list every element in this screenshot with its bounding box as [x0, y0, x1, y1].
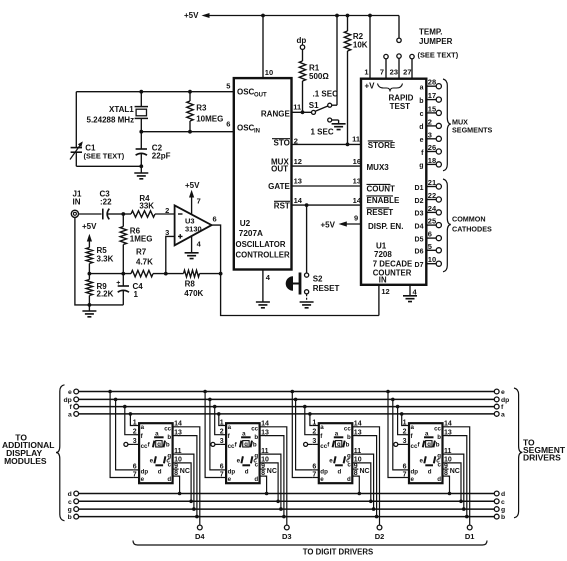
svg-text:g: g — [157, 442, 161, 448]
svg-text:a: a — [228, 424, 232, 431]
svg-text:b: b — [347, 434, 351, 441]
svg-text:+5V: +5V — [185, 181, 200, 190]
svg-text:e: e — [228, 476, 232, 483]
right terminal bus e — [494, 389, 505, 396]
svg-text:15: 15 — [428, 104, 436, 113]
U1 segment pin e (3) — [420, 130, 442, 144]
svg-text:9: 9 — [261, 463, 265, 470]
svg-text:8: 8 — [261, 470, 265, 477]
svg-text:9: 9 — [444, 463, 448, 470]
segment bus lines (e dp f a) — [79, 392, 494, 414]
svg-text:e: e — [420, 137, 424, 144]
svg-text:2: 2 — [220, 429, 224, 436]
U2 pin 4 ground — [256, 270, 271, 308]
svg-text:+5V: +5V — [184, 11, 199, 20]
svg-text:dp: dp — [320, 468, 328, 475]
svg-text:D3: D3 — [282, 532, 292, 541]
svg-text:e: e — [150, 457, 154, 464]
svg-text:b: b — [346, 442, 350, 449]
svg-text:OSC: OSC — [237, 124, 255, 133]
svg-text:3: 3 — [220, 438, 224, 445]
svg-text:5.24288 MHz: 5.24288 MHz — [87, 116, 135, 125]
svg-text:g: g — [501, 507, 505, 514]
module 4 pin 10 to bus c — [448, 463, 463, 503]
svg-text:JUMPER: JUMPER — [419, 37, 453, 46]
svg-text:3: 3 — [312, 438, 316, 445]
svg-text:7: 7 — [312, 471, 316, 478]
svg-text:g: g — [419, 163, 423, 170]
svg-text:.1 SEC: .1 SEC — [313, 90, 339, 99]
svg-text:8: 8 — [354, 470, 358, 477]
svg-text:STO: STO — [273, 139, 289, 148]
svg-text:a: a — [335, 430, 339, 437]
svg-text:CONTROLLER: CONTROLLER — [236, 251, 291, 260]
right terminal bus g — [494, 507, 505, 514]
svg-text:a: a — [411, 424, 415, 431]
svg-text:6: 6 — [403, 464, 407, 471]
svg-text:7: 7 — [220, 471, 224, 478]
svg-text:d: d — [68, 491, 72, 498]
svg-text:22pF: 22pF — [152, 152, 171, 161]
module 3 pin 8 to bus d — [358, 476, 362, 495]
svg-text:D4: D4 — [195, 532, 205, 541]
U1 pin 4 ground — [403, 285, 418, 302]
svg-text:13: 13 — [353, 176, 361, 185]
svg-text:(SEE TEXT): (SEE TEXT) — [418, 51, 459, 60]
svg-text:b: b — [166, 442, 170, 449]
svg-text:e: e — [420, 457, 424, 464]
svg-text:3: 3 — [133, 438, 137, 445]
svg-text:28: 28 — [428, 78, 436, 87]
svg-text:a: a — [320, 424, 324, 431]
wire STO pin2 to STORE pin11 — [292, 134, 362, 145]
variable capacitor C1 (SEE TEXT) — [70, 92, 125, 167]
svg-text:12: 12 — [381, 287, 389, 296]
svg-text:2: 2 — [403, 429, 407, 436]
svg-text:6: 6 — [312, 464, 316, 471]
svg-text:10: 10 — [428, 255, 436, 264]
svg-text:dp: dp — [501, 397, 509, 404]
bracket TO DIGIT DRIVERS — [133, 541, 487, 557]
svg-text:d: d — [158, 468, 162, 475]
svg-text:b: b — [254, 434, 258, 441]
svg-text:1: 1 — [312, 419, 316, 426]
svg-text:e: e — [68, 389, 72, 396]
svg-text:d: d — [428, 468, 432, 475]
op-amp U3 3130 — [165, 205, 211, 245]
module 4 pin 11 to bus g — [448, 454, 466, 511]
svg-text:6: 6 — [213, 214, 217, 223]
display module 4 — [394, 419, 460, 483]
resistor R6 1MEG — [120, 214, 152, 274]
svg-text:NC: NC — [450, 468, 460, 475]
ground below C2 — [134, 166, 148, 179]
svg-text:COMMON: COMMON — [452, 215, 486, 224]
U1 digit pin D6 (5) — [415, 242, 442, 256]
module 1 pin 13 to bus b — [178, 436, 199, 519]
svg-text:7: 7 — [197, 197, 201, 206]
svg-text:1: 1 — [220, 419, 224, 426]
ground below R9 — [82, 305, 96, 317]
svg-text:9: 9 — [354, 214, 358, 223]
svg-text:dp: dp — [63, 397, 71, 404]
svg-text:NC: NC — [180, 468, 190, 475]
svg-text:25: 25 — [428, 217, 436, 226]
svg-text:D1: D1 — [415, 185, 424, 192]
module 4 seven-segment glyph — [418, 430, 441, 475]
U1 digit pin D7 (10) — [415, 255, 442, 269]
svg-text:a: a — [242, 430, 246, 437]
ground at 1 SEC contact — [332, 120, 346, 130]
svg-text:R8: R8 — [185, 279, 196, 288]
module 1 seven-segment glyph — [148, 430, 171, 475]
module 1 pin 11 to bus g — [178, 454, 196, 511]
wire RANGE pin 11 — [292, 102, 312, 112]
module 2 seven-segment glyph — [235, 430, 258, 475]
svg-text:2: 2 — [165, 206, 169, 215]
module 2 pin 11 to bus g — [265, 454, 283, 511]
svg-text:14: 14 — [294, 196, 303, 205]
svg-text:18: 18 — [428, 156, 436, 165]
U1 digit pin D1 (21) — [415, 178, 442, 192]
svg-text:21: 21 — [428, 178, 436, 187]
crystal XTAL1 5.24288 MHz — [87, 92, 149, 132]
svg-text:+5V: +5V — [82, 222, 97, 231]
capacitor C4 1 — [116, 274, 143, 305]
resistor R8 470K — [184, 270, 223, 298]
svg-text:500Ω: 500Ω — [309, 72, 329, 81]
U1 digit pin D2 (22) — [415, 191, 442, 205]
module 1 tap bus a to pin 1 — [129, 412, 134, 425]
wire MUX OUT pin12 to MUX3 pin16 — [292, 157, 362, 166]
svg-text:e: e — [501, 389, 505, 396]
svg-text:3: 3 — [165, 228, 169, 237]
svg-text:c: c — [436, 457, 440, 464]
svg-text:OSCILLATOR: OSCILLATOR — [236, 240, 286, 249]
svg-text:a: a — [425, 430, 429, 437]
module 4 pin 13 to bus b — [448, 436, 469, 519]
left terminal bus g — [68, 507, 79, 514]
svg-text:d: d — [347, 476, 351, 483]
svg-text:c: c — [166, 457, 170, 464]
op-amp output pin 6 net to U1 pin 12 — [212, 214, 379, 315]
svg-text:d: d — [419, 124, 423, 131]
display module 3 — [304, 419, 370, 483]
module 3 tap bus a to pin 1 — [308, 412, 313, 425]
module 3 cc pin 14 to digit terminal D2 — [358, 427, 384, 541]
U2 pin 10 stub to +5V — [263, 16, 273, 79]
svg-text:1MEG: 1MEG — [130, 234, 153, 243]
svg-text:NC: NC — [267, 468, 277, 475]
svg-text:SEGMENTS: SEGMENTS — [452, 126, 493, 135]
+5V supply rail — [184, 11, 399, 20]
U1 pin 12 IN stub — [379, 285, 390, 316]
pushbutton S2 RESET — [286, 205, 340, 308]
svg-text:cc: cc — [164, 425, 171, 432]
svg-text:b: b — [419, 98, 423, 105]
temp jumper on pin 23 — [390, 16, 402, 79]
svg-text:10K: 10K — [353, 41, 368, 50]
right terminal bus dp — [494, 397, 509, 404]
module 2 cc pin 14 to digit terminal D3 — [265, 427, 291, 541]
svg-text:IN: IN — [379, 276, 387, 285]
svg-text:RESET: RESET — [313, 284, 340, 293]
svg-text:b: b — [501, 514, 505, 521]
+5V to DISP EN pin 9 — [321, 214, 362, 230]
module 2 pin 13 to bus b — [265, 436, 286, 519]
brace TO ADDITIONAL DISPLAY MODULES — [2, 385, 65, 521]
brace COMMON CATHODES — [443, 179, 492, 272]
svg-text:S1: S1 — [309, 101, 319, 110]
svg-text:NC: NC — [360, 468, 370, 475]
left terminal bus b — [68, 514, 79, 521]
display module 2 — [211, 419, 277, 483]
module 2 tap bus dp to pin 6 — [208, 398, 220, 470]
svg-text:b: b — [167, 434, 171, 441]
left terminal bus c — [68, 499, 79, 506]
svg-text:1: 1 — [403, 419, 407, 426]
resistor R5 3.3K — [86, 246, 113, 274]
svg-text:TEMP.: TEMP. — [419, 28, 442, 37]
svg-text:e: e — [320, 476, 324, 483]
svg-text::22: :22 — [100, 197, 112, 206]
svg-text:7208: 7208 — [374, 250, 392, 259]
svg-text:TEST: TEST — [390, 102, 411, 111]
svg-text:c: c — [501, 499, 505, 506]
svg-text:e: e — [237, 457, 241, 464]
svg-text:24: 24 — [428, 204, 437, 213]
ground return wire J1/R9/C4 — [75, 217, 123, 306]
svg-text:dp: dp — [411, 468, 419, 475]
svg-text:2: 2 — [312, 429, 316, 436]
svg-text:dp: dp — [228, 468, 236, 475]
module 2 tap bus f to pin 2 — [213, 405, 220, 435]
svg-text:dp: dp — [297, 36, 307, 45]
svg-text:23: 23 — [390, 68, 398, 77]
svg-text:MODULES: MODULES — [4, 456, 47, 466]
label TEMP. JUMPER (SEE TEXT) — [418, 28, 459, 60]
svg-text:d: d — [254, 476, 258, 483]
module 4 tap bus e to pin 7 — [386, 390, 403, 478]
svg-text:5: 5 — [226, 82, 230, 91]
module 3 pin 11 to bus g — [358, 454, 376, 511]
svg-text:470K: 470K — [184, 289, 203, 298]
svg-text:cc: cc — [251, 425, 258, 432]
svg-text:11: 11 — [293, 102, 301, 111]
svg-text:CATHODES: CATHODES — [452, 224, 492, 233]
module 2 pin 10 to bus c — [265, 463, 280, 503]
right terminal bus f — [494, 404, 504, 411]
module 2 tap bus a to pin 1 — [217, 412, 221, 425]
module 3 tap bus e to pin 7 — [291, 390, 313, 478]
svg-text:17: 17 — [428, 91, 436, 100]
right terminal bus b — [494, 514, 505, 521]
svg-text:e: e — [329, 457, 333, 464]
svg-text:26: 26 — [428, 143, 436, 152]
svg-text:cc: cc — [434, 425, 441, 432]
svg-text:1: 1 — [134, 290, 139, 299]
svg-text:6: 6 — [428, 230, 432, 239]
svg-text:D1: D1 — [465, 532, 475, 541]
brace TO SEGMENT DRIVERS — [514, 388, 566, 518]
counter IC U1 7208 7 decade counter — [361, 79, 426, 285]
op-amp pin 3 wire — [166, 236, 175, 273]
resistor R4 33K — [123, 194, 174, 217]
brace and label RAPID TEST — [378, 84, 414, 112]
svg-text:3130: 3130 — [185, 225, 202, 234]
right terminal bus a — [494, 412, 505, 419]
op-amp +5V pin 7 — [185, 181, 201, 215]
module 2 pin 8 to bus d — [265, 476, 269, 495]
+5V feed to R5 — [82, 222, 97, 248]
svg-text:10: 10 — [265, 68, 273, 77]
svg-text:d: d — [167, 476, 171, 483]
wire RST pin14 to RESET pin14 — [292, 196, 362, 207]
svg-text:+V: +V — [365, 82, 376, 91]
U1 segment pin d (2) — [419, 117, 441, 131]
segment bus lines (d c g b) — [79, 494, 494, 517]
connector J1 IN — [71, 190, 82, 218]
left terminal bus f — [70, 404, 79, 411]
svg-text:D2: D2 — [375, 532, 385, 541]
module 4 tap bus f to pin 2 — [396, 405, 403, 435]
svg-text:XTAL1: XTAL1 — [109, 105, 134, 114]
module 3 pin 10 to bus c — [358, 463, 373, 503]
svg-text:e: e — [411, 476, 415, 483]
svg-text:U2: U2 — [240, 219, 251, 228]
svg-text:R3: R3 — [196, 104, 207, 113]
svg-text:27: 27 — [403, 68, 411, 77]
svg-text:IN: IN — [73, 197, 81, 206]
svg-text:c: c — [346, 457, 350, 464]
U1 segment pin a (28) — [420, 78, 442, 92]
svg-text:e: e — [141, 476, 145, 483]
module 1 tap bus dp to pin 6 — [114, 398, 133, 470]
svg-text:RANGE: RANGE — [261, 110, 291, 119]
resistor R3 10MEG — [187, 92, 224, 132]
svg-text:3.3K: 3.3K — [97, 254, 114, 263]
svg-text:b: b — [253, 442, 257, 449]
U1 segment pin b (17) — [419, 91, 441, 105]
svg-text:GATE: GATE — [268, 182, 290, 191]
display module 1 — [124, 419, 190, 483]
module 4 tap bus a to pin 1 — [400, 412, 404, 425]
svg-text:d: d — [437, 476, 441, 483]
module 1 pin 8 to bus d — [178, 476, 182, 495]
svg-text:D3: D3 — [415, 211, 424, 218]
svg-text:b: b — [437, 434, 441, 441]
node after C3 — [121, 212, 125, 216]
svg-text:2: 2 — [428, 117, 432, 126]
svg-text:7 DECADE: 7 DECADE — [373, 260, 412, 269]
svg-text:g: g — [68, 507, 72, 514]
svg-text:7: 7 — [380, 68, 384, 77]
resistor R1 500 ohm — [299, 49, 329, 114]
svg-text:6: 6 — [220, 464, 224, 471]
svg-text:c: c — [253, 457, 257, 464]
module 2 tap bus e to pin 7 — [203, 390, 220, 478]
svg-text:8: 8 — [174, 470, 178, 477]
left terminal bus a — [68, 412, 79, 419]
svg-text:D5: D5 — [415, 236, 424, 243]
svg-text:STORE: STORE — [368, 141, 396, 150]
svg-text:6: 6 — [226, 119, 230, 128]
svg-text:g: g — [244, 442, 248, 448]
svg-text:22: 22 — [428, 191, 436, 200]
resistor R7 4.7K — [131, 248, 184, 277]
wire XTAL rail to OSC OUT pin 5 — [76, 82, 234, 94]
U1 pin 1 +V stub — [364, 16, 370, 79]
svg-text:1: 1 — [133, 419, 137, 426]
svg-text:7: 7 — [133, 471, 137, 478]
U1 digit pin D3 (24) — [415, 204, 442, 218]
svg-text:g: g — [337, 442, 341, 448]
svg-text:S2: S2 — [313, 275, 323, 284]
svg-text:7207A: 7207A — [239, 229, 263, 238]
svg-text:33K: 33K — [139, 202, 154, 211]
svg-text:g: g — [427, 442, 431, 448]
right terminal bus d — [494, 491, 505, 498]
module 1 cc pin 14 to digit terminal D4 — [178, 427, 205, 541]
svg-text:7: 7 — [403, 471, 407, 478]
svg-text:a: a — [420, 85, 424, 92]
svg-text:D6: D6 — [415, 249, 424, 256]
wire GATE pin13 to COUNT ENABLE pin13 — [292, 176, 362, 186]
left terminal bus dp — [63, 397, 78, 404]
capacitor C2 22pF — [136, 132, 171, 167]
module 1 tap bus f to pin 2 — [123, 405, 133, 435]
U1 pin 7 test point — [380, 54, 388, 78]
svg-text:R7: R7 — [136, 248, 147, 257]
svg-text:MUX3: MUX3 — [367, 163, 390, 172]
module 3 seven-segment glyph — [327, 430, 350, 475]
terminal dp — [297, 36, 307, 49]
module 3 pin 13 to bus b — [358, 436, 379, 519]
svg-text:2: 2 — [133, 429, 137, 436]
svg-text:4.7K: 4.7K — [136, 258, 153, 267]
svg-text:13: 13 — [294, 176, 302, 185]
svg-text:d: d — [245, 468, 249, 475]
svg-text:9: 9 — [354, 463, 358, 470]
svg-text:D2: D2 — [415, 198, 424, 205]
svg-text:(SEE TEXT): (SEE TEXT) — [84, 152, 125, 161]
svg-text:8: 8 — [444, 470, 448, 477]
U1 segment pin g (18) — [419, 156, 441, 170]
svg-text:D7: D7 — [415, 262, 424, 269]
svg-text:1 SEC: 1 SEC — [311, 128, 334, 137]
U1 segment pin f (26) — [421, 143, 441, 157]
svg-text:3: 3 — [403, 438, 407, 445]
right terminal bus c — [494, 499, 505, 506]
capacitor C3 .22 — [79, 190, 124, 220]
svg-text:OUT: OUT — [271, 165, 288, 174]
svg-text:c: c — [68, 499, 72, 506]
svg-text:OSC: OSC — [237, 88, 255, 97]
svg-text:COUNT: COUNT — [367, 185, 396, 194]
svg-text:c: c — [420, 111, 424, 118]
module 1 tap bus e to pin 7 — [108, 390, 133, 478]
svg-text:cc: cc — [344, 425, 351, 432]
svg-text:ENABLE: ENABLE — [367, 196, 401, 205]
module 3 tap bus f to pin 2 — [303, 405, 313, 435]
svg-text:16: 16 — [353, 157, 361, 166]
svg-text:b: b — [436, 442, 440, 449]
svg-text:10MEG: 10MEG — [196, 114, 223, 123]
svg-text:9: 9 — [174, 463, 178, 470]
svg-text:+5V: +5V — [321, 220, 336, 229]
svg-text:2: 2 — [294, 136, 298, 145]
svg-text:5: 5 — [428, 242, 432, 251]
